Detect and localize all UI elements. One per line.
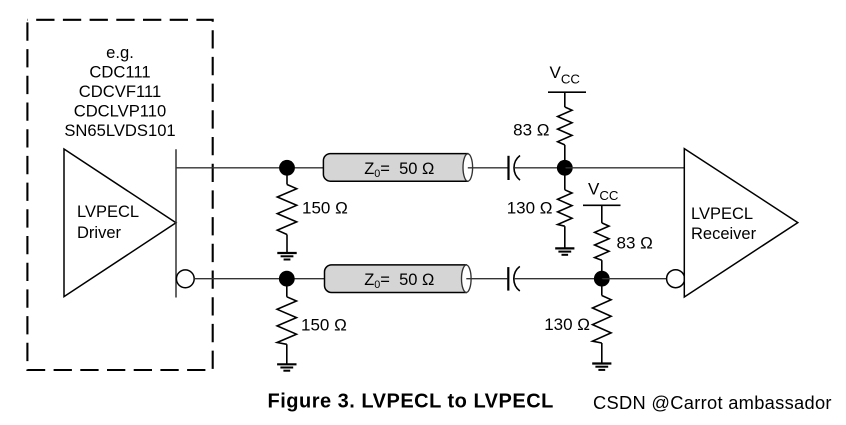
resistor R 83 ohm (top) xyxy=(558,107,572,168)
resistor R 130 ohm (bottom) xyxy=(593,279,612,364)
svg-text:CDC111: CDC111 xyxy=(89,62,150,81)
svg-text:Figure 3. LVPECL to LVPECL: Figure 3. LVPECL to LVPECL xyxy=(268,391,554,413)
driver IC dashed boundary box xyxy=(27,20,212,370)
driver amplifier triangle (LVPECL Driver) xyxy=(64,149,176,297)
driver label xyxy=(77,203,139,242)
receiver inverting input bubble xyxy=(667,270,685,288)
wire: capacitor to top-right node xyxy=(514,167,565,169)
resistor R 130 ohm (top) xyxy=(558,168,572,249)
capacitor C2 (bottom) xyxy=(508,266,520,291)
ground (top-right) xyxy=(555,248,574,254)
receiver label xyxy=(691,205,757,243)
svg-text:130 Ω: 130 Ω xyxy=(507,199,553,218)
resistor R 150 ohm (bottom) xyxy=(277,279,296,365)
node: top-right junction xyxy=(557,160,573,176)
driver inverting output bubble xyxy=(176,270,194,288)
node: top-left junction xyxy=(279,160,295,176)
svg-text:150 Ω: 150 Ω xyxy=(301,316,347,335)
svg-text:CSDN @Carrot ambassador: CSDN @Carrot ambassador xyxy=(593,392,832,413)
driver part-number label (e.g. CDC111 CDCVF111 CDCLVP110 SN65LVDS101) xyxy=(64,43,175,140)
svg-text:CDCVF111: CDCVF111 xyxy=(79,82,161,101)
svg-text:130 Ω: 130 Ω xyxy=(544,315,590,334)
driver output bar xyxy=(175,149,177,297)
svg-text:LVPECL: LVPECL xyxy=(77,203,139,221)
capacitor C1 (top) xyxy=(509,156,521,181)
node: bottom-right junction xyxy=(594,271,610,287)
transmission line T2 (bottom, Z0 = 50 ohm) xyxy=(325,265,472,293)
svg-text:83 Ω: 83 Ω xyxy=(617,234,653,253)
svg-text:CDCLVP110: CDCLVP110 xyxy=(74,102,167,121)
wire: top TL to capacitor xyxy=(468,167,508,169)
svg-text:SN65LVDS101: SN65LVDS101 xyxy=(64,121,175,140)
resistor R 150 ohm (top) xyxy=(277,168,296,253)
node: bottom-left junction xyxy=(279,271,295,287)
svg-text:83 Ω: 83 Ω xyxy=(513,121,549,140)
wire: driver inverting output to bottom transmission line xyxy=(194,278,324,280)
ground (bottom-left) xyxy=(277,364,296,370)
receiver amplifier triangle (LVPECL Receiver) xyxy=(684,149,798,297)
transmission line T1 (top, Z0 = 50 ohm) xyxy=(323,154,472,182)
svg-text:150 Ω: 150 Ω xyxy=(302,199,348,218)
resistor R 83 ohm (bottom) xyxy=(595,223,609,279)
wire: top-right node to receiver xyxy=(565,167,685,169)
svg-text:Receiver: Receiver xyxy=(691,225,757,243)
VCC supply symbol (bottom) xyxy=(583,180,621,223)
svg-text:LVPECL: LVPECL xyxy=(691,205,753,223)
wire: bottom TL to capacitor xyxy=(466,278,507,280)
VCC supply symbol (top) xyxy=(548,63,586,107)
svg-text:e.g.: e.g. xyxy=(106,43,134,62)
ground (bottom-right) xyxy=(592,364,611,370)
wire: capacitor to bottom-right node xyxy=(514,278,602,280)
svg-text:Driver: Driver xyxy=(77,224,122,242)
wire: driver true output to top transmission line xyxy=(176,167,324,169)
ground (top-left) xyxy=(277,253,296,260)
wire: bottom-right node to receiver bubble xyxy=(602,278,667,280)
